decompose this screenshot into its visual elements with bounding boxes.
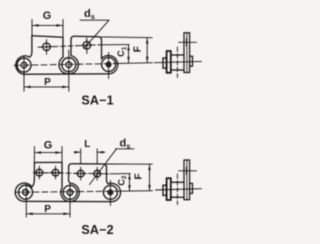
G dimension line <box>32 24 63 26</box>
ds underline (bottom) <box>116 148 135 150</box>
hole H3 in plate 3 <box>36 169 43 176</box>
P dimension line (bottom) <box>26 213 70 215</box>
plate 3 right edge wrapping R5 left <box>61 162 70 201</box>
P arrow left (bottom) <box>27 213 33 216</box>
attachment hole centerline <box>179 41 197 43</box>
centerline solid extension (F/C1 lower reference) <box>116 62 153 65</box>
svg-text:P: P <box>44 204 51 215</box>
C2 arrow down <box>128 185 131 190</box>
plate 3 top edge <box>34 161 62 163</box>
plate 4 right edge wrapping R6 <box>107 170 121 202</box>
roller R3 pin (solid) <box>106 62 111 67</box>
outer plate (end view) <box>167 51 171 73</box>
svg-text:F: F <box>132 46 143 52</box>
vertical center dashes (bottom) <box>176 174 178 205</box>
roller R4 vertical centerline / P extension <box>25 184 27 217</box>
attachment plate inner edge (bottom) <box>186 160 188 199</box>
chain bottom tangent <box>24 73 109 75</box>
P dimension line <box>24 86 69 88</box>
hole H6 in plate 4 <box>94 170 101 177</box>
roller R1 outer <box>17 58 31 72</box>
roller R1 vertical centerline / P extension <box>23 57 25 92</box>
G arrow left <box>33 24 39 27</box>
roller R5 vertical centerline / P extension <box>69 183 71 217</box>
bush top line <box>171 54 184 56</box>
attachment hole centerline (bottom) <box>179 170 197 172</box>
attachment plate inner edge <box>186 33 188 72</box>
svg-text:F: F <box>134 173 145 179</box>
ds leader to hole H2 <box>84 20 109 48</box>
svg-text:G: G <box>44 139 53 151</box>
pin centerline (bottom end view) <box>156 189 202 190</box>
bush bottom line (bottom) <box>171 196 184 198</box>
plate 4 top edge with corners <box>69 164 107 170</box>
attachment plate edge view tall (bottom) <box>184 160 190 200</box>
pin centerline <box>155 61 202 62</box>
roller R1 pin <box>21 62 27 68</box>
roller R2 vertical centerline / P extension <box>68 50 70 91</box>
hole H1 in plate 1 <box>43 43 51 51</box>
F arrow up <box>146 38 149 44</box>
hole H6 vertical crosshair <box>96 167 98 180</box>
plate-top extension line (F upper reference, bottom) <box>107 163 153 165</box>
hole H5 in plate 4 <box>77 170 84 177</box>
plate-top extension line (F upper reference) <box>102 36 153 39</box>
holes centerline (dashed) <box>36 173 110 174</box>
chain centerline <box>15 191 116 192</box>
pin head (bottom) <box>163 185 167 195</box>
plate 4 left edge wrapping R5 right <box>69 167 80 202</box>
holes centerline (dashed) <box>38 45 100 47</box>
roller R4 pin <box>23 189 29 195</box>
L arrow left (outside, pointing right) <box>75 151 81 154</box>
svg-text:SA−2: SA−2 <box>81 223 113 237</box>
svg-text:G: G <box>43 10 52 22</box>
attachment plate edge view (tall) <box>184 33 190 73</box>
L outside tail left <box>74 151 81 153</box>
roller R6 outer <box>103 185 117 199</box>
hole-CL extension (C2 upper reference) <box>110 173 130 175</box>
hole H4 horizontal crosshair <box>50 172 62 174</box>
outer plate (bottom end view) <box>167 178 171 200</box>
L dimension extension left <box>80 149 82 164</box>
centerline solid extension (F/C2 lower reference) <box>116 190 153 193</box>
L outside tail right <box>97 151 105 153</box>
hole H1 vertical crosshair <box>46 40 48 55</box>
hole H1 horizontal crosshair <box>40 46 53 49</box>
G dimension line (bottom) <box>34 152 62 154</box>
P arrow right (bottom) <box>63 213 69 216</box>
F arrow down <box>146 57 149 63</box>
svg-text:P: P <box>44 77 51 88</box>
pin end right (bottom) <box>190 183 193 193</box>
C1 dimension line <box>128 45 130 63</box>
G dimension extension right (bottom) <box>61 147 63 163</box>
G dimension extension left (bottom) <box>33 147 35 163</box>
roller R2 outer <box>62 58 76 72</box>
C2 arrow up <box>128 174 131 179</box>
L dimension extension right <box>96 149 98 164</box>
hole H2 in plate 2 <box>83 41 91 49</box>
plate 2 top edge with corners <box>71 36 102 42</box>
attachment hole vertical tick <box>185 39 187 46</box>
bush top line (bottom) <box>171 181 184 183</box>
ds leader to hole H6 (bottom) <box>90 149 117 185</box>
attachment hole vertical tick (bottom) <box>185 167 187 174</box>
hole H4 vertical crosshair <box>55 166 57 179</box>
F arrow down (bottom) <box>148 185 151 191</box>
hole H2 horizontal crosshair <box>80 44 93 47</box>
svg-text:L: L <box>84 139 90 150</box>
roller R6 pin (solid) <box>108 190 113 195</box>
roller R5 pin <box>67 190 73 196</box>
hole H3 vertical crosshair <box>38 166 40 179</box>
G arrow right <box>56 24 62 27</box>
bush bottom line <box>171 69 184 71</box>
hole H2 vertical crosshair <box>86 38 88 54</box>
plate 2 left edge wrapping R2 right <box>69 40 79 74</box>
plate 2 right edge wrapping R3 <box>102 42 118 74</box>
G dimension extension right <box>62 20 64 38</box>
roller R3 vertical centerline <box>108 53 110 79</box>
plate 1 top edge <box>32 36 63 38</box>
G dimension extension left <box>31 20 33 36</box>
G arrow left (bottom) <box>35 151 41 154</box>
roller R4 outer <box>19 185 33 199</box>
C1 arrow down <box>127 57 130 62</box>
roller R5 outer <box>63 185 77 199</box>
svg-text:SA−1: SA−1 <box>81 94 113 108</box>
attachment plate 3 outline with left wrap around R4 <box>15 163 34 202</box>
plate 1 right edge wrapping R2 left <box>59 37 69 74</box>
L arrow right (outside, pointing left) <box>98 151 104 154</box>
chain centerline <box>14 64 116 66</box>
pin head <box>163 58 167 68</box>
F dimension line (bottom) <box>149 164 151 191</box>
C1 arrow up <box>127 45 130 50</box>
ds underline <box>80 19 109 21</box>
roller R6 vertical centerline <box>109 181 111 206</box>
roller R2 pin <box>66 62 72 68</box>
hole H4 in plate 3 <box>52 169 59 176</box>
F dimension line <box>146 38 148 63</box>
C2 dimension line <box>129 174 131 191</box>
P arrow left <box>25 86 31 89</box>
vertical center dashes <box>176 47 178 78</box>
hole H6 horizontal crosshair <box>91 173 103 175</box>
pin end right <box>190 56 193 66</box>
hole H5 horizontal crosshair <box>75 173 87 175</box>
G arrow right (bottom) <box>55 151 61 154</box>
roller R3 outer <box>102 58 116 72</box>
hole-CL extension (C1 upper reference) <box>100 44 129 46</box>
attachment plate 1 outline with left wrap around R1 <box>16 36 32 75</box>
hole H3 horizontal crosshair <box>34 172 46 174</box>
hole H5 vertical crosshair <box>80 167 82 180</box>
F arrow up (bottom) <box>148 165 151 171</box>
chain bottom tangent <box>26 200 111 202</box>
P arrow right <box>62 86 68 89</box>
